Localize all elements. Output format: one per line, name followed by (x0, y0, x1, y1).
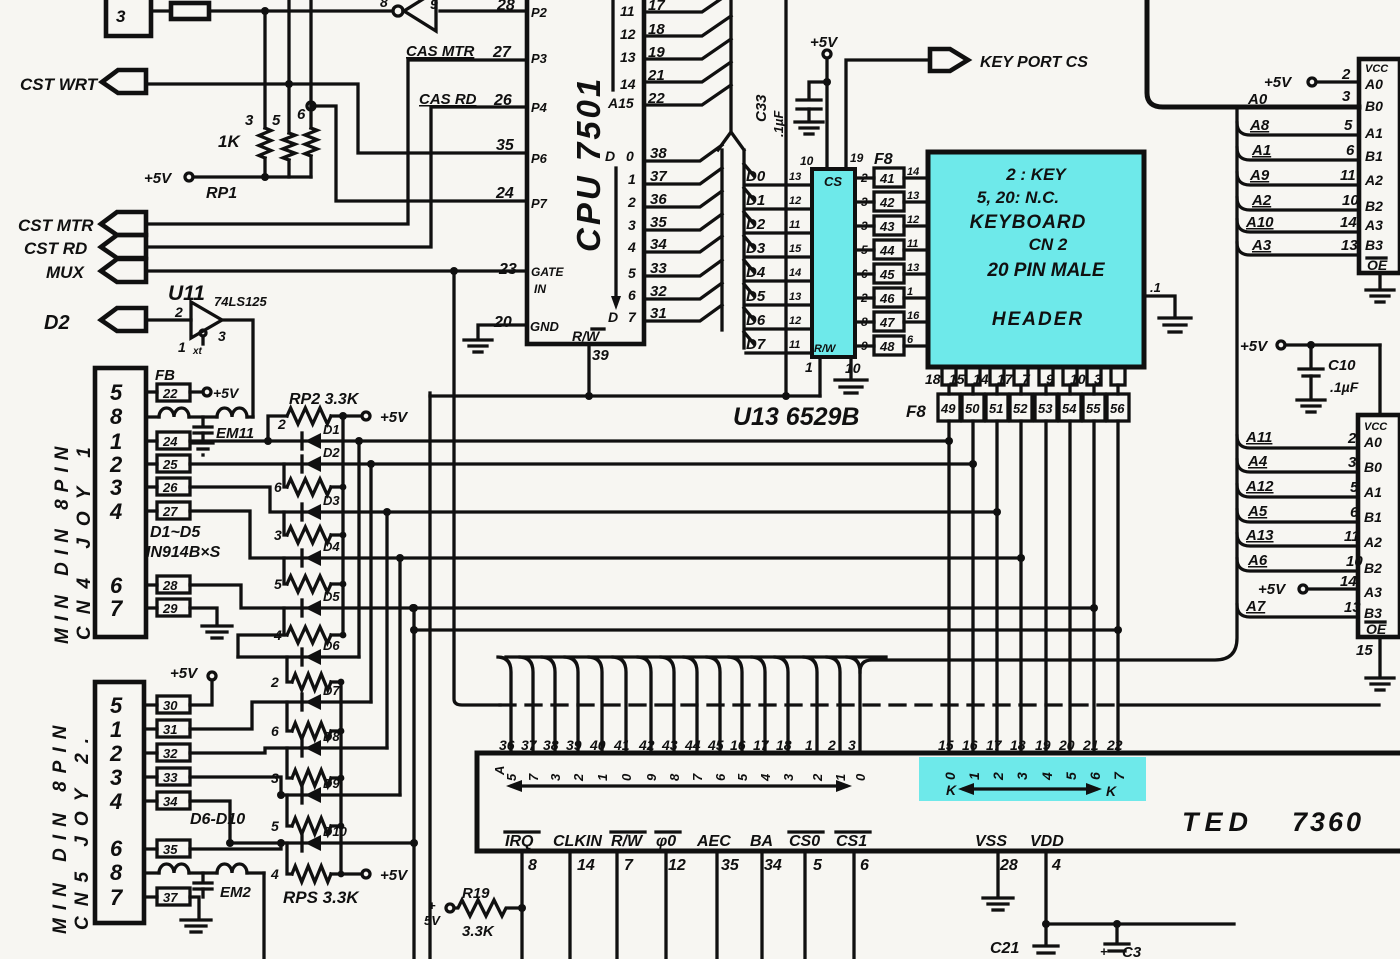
wire D6 row (238, 655, 359, 658)
svg-text:2: 2 (571, 773, 586, 782)
svg-text:14: 14 (789, 267, 801, 279)
svg-text:.1µF: .1µF (771, 110, 786, 137)
svg-text:14: 14 (1340, 573, 1357, 590)
svg-text:53: 53 (1038, 401, 1053, 416)
svg-text:3: 3 (781, 773, 796, 781)
wire leg6 to CPU P7 (311, 106, 527, 201)
wire A1 to conn1 (1237, 142, 1359, 160)
svg-text:3: 3 (548, 773, 563, 781)
wire EM2 out down (262, 873, 265, 959)
svg-text:24: 24 (495, 185, 514, 202)
node cyan highlight K0-K7 strip (919, 757, 1146, 801)
wire A-bus vertical right (860, 107, 1237, 672)
svg-text:2: 2 (270, 674, 279, 690)
svg-text:1: 1 (966, 772, 982, 780)
pin 10 6529 bottom (845, 357, 861, 378)
svg-text:B2: B2 (1364, 560, 1382, 576)
wire D7 row (302, 700, 371, 703)
pin 14 keyboard bottom (973, 367, 1004, 387)
resistor RP5-4 (270, 843, 344, 882)
svg-text:15: 15 (949, 371, 965, 387)
svg-text:P2: P2 (531, 5, 548, 20)
svg-text:16: 16 (962, 737, 978, 753)
svg-text:KEYBOARD: KEYBOARD (970, 212, 1087, 233)
svg-text:32: 32 (163, 746, 178, 761)
wire RP5 common bus (339, 682, 342, 874)
svg-text:8: 8 (380, 0, 388, 10)
power +5V conn2 A3 (1258, 573, 1358, 598)
svg-text:8: 8 (667, 773, 682, 781)
svg-text:B0: B0 (1364, 459, 1382, 475)
svg-text:23: 23 (498, 261, 517, 278)
svg-text:HEADER: HEADER (992, 309, 1084, 330)
wire A pin 19 to bus (644, 39, 731, 59)
label A0 net (1247, 88, 1351, 108)
svg-text:VSS: VSS (975, 833, 1007, 850)
svg-text:34: 34 (163, 794, 178, 809)
svg-text:5: 5 (1350, 479, 1359, 496)
svg-text:14: 14 (907, 166, 919, 178)
wire MUX drop to dashed net (454, 271, 500, 705)
svg-text:D2: D2 (746, 216, 766, 233)
resistor RP2-6 (274, 464, 346, 495)
svg-text:6: 6 (271, 723, 279, 739)
svg-text:17: 17 (753, 737, 770, 753)
ferrite bead FB56 (1107, 385, 1129, 421)
svg-text:3: 3 (848, 737, 856, 753)
ferrite bead FB26 (146, 478, 190, 495)
ferrite bead FB28 (146, 576, 190, 593)
pin CLKIN TED bottom (553, 833, 602, 959)
ferrite bead FB49 (938, 385, 960, 421)
svg-text:A2: A2 (1251, 192, 1272, 209)
svg-text:D3: D3 (746, 240, 766, 257)
wire R/W down left (428, 396, 431, 959)
svg-text:A10: A10 (1245, 214, 1274, 231)
svg-text:11: 11 (907, 238, 918, 250)
svg-text:+: + (1100, 944, 1108, 959)
svg-text:48: 48 (879, 339, 895, 354)
svg-text:1: 1 (110, 717, 122, 742)
wire TED left pin band (506, 655, 886, 658)
connector J? top-left box (106, 0, 151, 36)
node CST WRT flag (20, 70, 146, 94)
svg-text:F8: F8 (874, 151, 893, 168)
svg-text:44: 44 (879, 243, 895, 258)
svg-text:+5V: +5V (1264, 74, 1293, 91)
connector U? latch 2 body (1358, 415, 1400, 637)
wire D7 riser to K1 (369, 464, 372, 702)
svg-text:D7: D7 (746, 336, 766, 353)
wire D pin 32 to bus (644, 283, 722, 299)
svg-text:3: 3 (271, 770, 279, 786)
svg-text:4: 4 (1051, 857, 1061, 874)
svg-text:37: 37 (163, 890, 178, 905)
svg-text:5: 5 (813, 857, 823, 874)
svg-text:15: 15 (789, 243, 802, 255)
svg-text:20: 20 (1058, 737, 1075, 753)
svg-text:A1: A1 (1364, 125, 1383, 141)
pin 17 keyboard bottom (997, 367, 1028, 387)
svg-text:41: 41 (879, 171, 894, 186)
node junction MUX drop (450, 267, 458, 275)
node junction K4 joy2 (409, 604, 417, 612)
wire TED pin 45 (707, 657, 720, 753)
svg-text:42: 42 (879, 195, 895, 210)
svg-text:3: 3 (861, 195, 868, 209)
svg-text:4: 4 (270, 866, 279, 882)
wire TED pin 38 (542, 657, 555, 753)
svg-text:3: 3 (116, 7, 126, 26)
wire thick feed top right (1147, 0, 1359, 107)
wire K4 row (302, 606, 1094, 609)
svg-text:MIN DIN 8PIN: MIN DIN 8PIN (50, 718, 71, 934)
svg-text:74LS125: 74LS125 (214, 294, 268, 309)
svg-text:3.3K: 3.3K (462, 923, 495, 940)
svg-text:CLKIN: CLKIN (553, 833, 602, 850)
wire TED pin 44 (684, 657, 697, 753)
svg-text:19: 19 (1035, 737, 1051, 753)
diode D4 (302, 539, 340, 566)
svg-text:5V: 5V (424, 913, 441, 928)
ferrite bead FB46 (855, 286, 928, 307)
wire CST WRT to CPU P6 (146, 84, 527, 153)
ferrite bead FB43 (855, 214, 928, 235)
wire inverter output to P2 (440, 9, 527, 12)
wire keyboard column K2 to TED pin (995, 421, 998, 753)
svg-text:2: 2 (109, 741, 123, 766)
svg-text:K: K (946, 782, 957, 798)
svg-text:C3: C3 (1122, 944, 1142, 959)
wire TED pin 42 (638, 657, 651, 753)
wire A pin 17 to bus (644, 0, 731, 12)
svg-text:VCC: VCC (1365, 63, 1389, 75)
svg-text:6: 6 (1087, 772, 1103, 780)
wire D pin 34 to bus (644, 236, 722, 252)
svg-text:A11: A11 (1245, 429, 1272, 446)
svg-text:B2: B2 (1365, 198, 1383, 214)
resistor RP5-6 (271, 702, 344, 739)
svg-text:D4: D4 (746, 264, 766, 281)
svg-text:35: 35 (163, 842, 178, 857)
svg-text:42: 42 (638, 737, 655, 753)
resistor RP5-2 (270, 657, 344, 690)
svg-text:MIN DIN 8PIN: MIN DIN 8PIN (52, 440, 73, 644)
ferrite bead FB30 (144, 696, 190, 713)
wire data bus top vertical (729, 0, 732, 130)
power +5V RP5 (341, 867, 409, 884)
wire RP1 leg 6 vertical (309, 0, 312, 128)
svg-text:CN 2: CN 2 (1029, 235, 1068, 254)
node junction K3 joy2 (396, 554, 404, 562)
wire D pin 33 to bus (644, 260, 722, 276)
node junction K1 column (969, 460, 977, 468)
wire A3 to conn1 (1237, 237, 1359, 255)
svg-text:3: 3 (1094, 371, 1102, 387)
node junction K4 column (1090, 604, 1098, 612)
svg-text:1: 1 (178, 339, 186, 355)
svg-text:CST WRT: CST WRT (20, 75, 99, 94)
svg-text:A0: A0 (1364, 76, 1383, 92)
svg-text:1: 1 (805, 737, 813, 753)
svg-text:D1~D5: D1~D5 (150, 524, 201, 541)
svg-text:7: 7 (628, 309, 637, 325)
pin 15 keyboard bottom (949, 367, 980, 387)
IC U? CPU 7501 body (527, 0, 644, 344)
wire VDD rail (1042, 920, 1234, 928)
wire D6 row left riser (238, 635, 284, 657)
pin 7 keyboard bottom (1022, 367, 1053, 387)
svg-text:35: 35 (496, 137, 515, 154)
svg-text:1K: 1K (218, 132, 241, 151)
wire keyboard column K3 to TED pin (1019, 421, 1022, 753)
svg-text:φ0: φ0 (656, 833, 676, 850)
svg-text:12: 12 (907, 214, 919, 226)
svg-text:22: 22 (162, 386, 178, 401)
power +5V C10 (1240, 338, 1380, 355)
svg-text:4: 4 (627, 239, 636, 255)
svg-text:CST MTR: CST MTR (18, 216, 94, 235)
svg-text:44: 44 (684, 737, 701, 753)
svg-text:14: 14 (577, 857, 595, 874)
svg-text:GND: GND (530, 319, 560, 334)
capacitor EM1 mid (194, 417, 212, 441)
svg-text:4: 4 (758, 773, 773, 782)
wire D pin 35 to bus (644, 214, 722, 230)
svg-text:15: 15 (1356, 642, 1373, 659)
svg-text:R/W: R/W (611, 833, 644, 850)
svg-text:A13: A13 (1245, 527, 1274, 544)
pin BA TED bottom (750, 833, 782, 959)
wire K2 row (302, 510, 997, 513)
svg-text:CS1: CS1 (836, 833, 867, 850)
svg-text:D4: D4 (323, 539, 340, 554)
svg-text:43: 43 (879, 219, 895, 234)
svg-text:8: 8 (861, 315, 868, 329)
svg-text:U13 6529B: U13 6529B (733, 403, 859, 431)
wire D column arrow (611, 168, 621, 310)
svg-text:C10: C10 (1328, 357, 1356, 374)
ferrite bead FB31 (144, 720, 190, 737)
wire pin7 CN5 to ground (190, 897, 199, 918)
node arrow group1 (492, 766, 852, 792)
svg-text:A0: A0 (1363, 434, 1382, 450)
svg-text:U11: U11 (168, 282, 205, 305)
svg-text:CS0: CS0 (789, 833, 820, 850)
svg-text:3: 3 (1348, 454, 1357, 471)
diode D1 (302, 422, 340, 449)
svg-text:10: 10 (1070, 371, 1086, 387)
svg-text:A6: A6 (1247, 552, 1268, 569)
svg-text:4: 4 (1039, 772, 1055, 781)
svg-text:30: 30 (163, 698, 178, 713)
svg-text:52: 52 (1013, 401, 1028, 416)
wire long vertical D7 feed (784, 0, 787, 396)
IC TED 7360 body (477, 753, 1400, 851)
wire pin6 to K4 row (190, 585, 302, 608)
svg-text:VDD: VDD (1030, 833, 1064, 850)
wire TED pin 36 (498, 657, 511, 753)
svg-text:54: 54 (1062, 401, 1077, 416)
svg-text:K: K (1106, 783, 1117, 799)
ground CN4 pin7 (202, 626, 232, 638)
svg-text:18: 18 (1010, 737, 1026, 753)
svg-text:B0: B0 (1365, 98, 1383, 114)
pin label OE conn2 (1366, 621, 1387, 637)
svg-text:36: 36 (499, 737, 515, 753)
svg-text:11: 11 (789, 219, 800, 231)
node D1 net label (744, 188, 812, 209)
svg-text:+5V: +5V (380, 409, 409, 426)
resistor R? top-left (171, 3, 209, 19)
svg-text:39: 39 (566, 737, 582, 753)
ground C10 (1297, 400, 1325, 412)
ferrite bead FB50 (962, 385, 984, 421)
svg-text:43: 43 (661, 737, 678, 753)
svg-text:CAS MTR: CAS MTR (406, 43, 474, 60)
svg-text:17: 17 (997, 371, 1014, 387)
ferrite bead FB25 (146, 455, 190, 472)
svg-text:4: 4 (109, 789, 122, 814)
svg-text:+5V: +5V (144, 170, 173, 187)
wire A pin 22 to bus (644, 85, 731, 105)
svg-text:21: 21 (1082, 737, 1099, 753)
svg-text:6: 6 (274, 479, 282, 495)
wire A12 to conn2 (1237, 478, 1359, 497)
svg-text:35: 35 (721, 857, 740, 874)
svg-text:7: 7 (1022, 371, 1031, 387)
wire pin1 CN5 to D7 row (190, 702, 302, 729)
wire pin2 CN5 to D8 row (190, 748, 302, 753)
pin 18 keyboard bottom (925, 367, 956, 387)
wire A8 to conn1 (1237, 117, 1359, 135)
svg-text:IRQ: IRQ (505, 833, 534, 850)
svg-text:A3: A3 (1363, 584, 1382, 600)
wire D10 riser to K4/K5 (410, 604, 418, 959)
svg-text:14: 14 (973, 371, 989, 387)
svg-text:47: 47 (879, 315, 895, 330)
inductor EM2 filter pin8 (144, 864, 264, 901)
svg-text:.1µF: .1µF (1330, 379, 1359, 395)
svg-text:5: 5 (271, 818, 279, 834)
svg-text:7360: 7360 (1292, 807, 1364, 837)
svg-text:37: 37 (521, 737, 538, 753)
svg-text:CN4 JOY 1: CN4 JOY 1 (74, 435, 95, 640)
wire +5V to conn2 VCC (1378, 345, 1381, 415)
pin 1 keyboard ground (1144, 280, 1175, 316)
pin label OE conn1 (1367, 257, 1388, 273)
svg-text:5: 5 (272, 112, 281, 129)
svg-text:CAS RD: CAS RD (419, 91, 477, 108)
wire D pin 31 to bus (644, 305, 722, 321)
wire CST RD to CPU P4 (CAS RD) (146, 107, 527, 247)
svg-text:2: 2 (827, 737, 836, 753)
svg-text:13: 13 (789, 291, 801, 303)
capacitor C3 (1100, 924, 1142, 959)
wire A11 to conn2 (1237, 429, 1358, 448)
svg-text:3: 3 (1014, 772, 1030, 780)
svg-text:51: 51 (989, 401, 1003, 416)
ferrite bead FB34 (144, 792, 190, 809)
svg-text:28: 28 (999, 857, 1018, 874)
node junction K0 column (945, 437, 953, 445)
ferrite bead FB35 (144, 840, 190, 857)
wire KEY PORT CS from 6529 pin 19 (846, 60, 930, 169)
pin IRQ TED bottom (505, 832, 539, 959)
wire TED pin 18 (775, 657, 788, 753)
svg-text:13: 13 (789, 171, 801, 183)
svg-text:CN5 JOY 2.: CN5 JOY 2. (72, 728, 93, 930)
svg-text:+5V: +5V (213, 385, 240, 401)
wire resistor to inverter input (209, 9, 392, 12)
svg-text:6: 6 (907, 334, 914, 346)
pin VDD TED (1030, 833, 1064, 924)
ground VSS (983, 898, 1013, 910)
svg-text:+5V: +5V (1258, 581, 1287, 598)
ferrite bead FB41 (855, 166, 928, 187)
ferrite bead FB48 (855, 334, 928, 355)
svg-text:5: 5 (735, 773, 750, 781)
wire A5 to conn2 (1237, 503, 1359, 522)
svg-text:A9: A9 (1249, 167, 1270, 184)
svg-text:33: 33 (163, 770, 178, 785)
svg-text:6: 6 (861, 267, 868, 281)
connector CN4 JOY 1 body (95, 368, 146, 637)
svg-text:56: 56 (1110, 401, 1125, 416)
svg-text:46: 46 (879, 291, 895, 306)
wire A2 to conn1 (1237, 192, 1359, 210)
resistor RP2-2 (264, 408, 360, 445)
svg-text:2: 2 (810, 773, 825, 782)
wire pin3 to K2 row (190, 487, 302, 512)
svg-text:5: 5 (274, 576, 282, 592)
wire keyboard column K6 to TED pin (1092, 421, 1095, 753)
svg-text:xt: xt (192, 346, 203, 357)
IC U13 6529B body (812, 169, 855, 357)
pin 9 keyboard bottom (1046, 367, 1077, 387)
svg-text:3: 3 (1342, 88, 1351, 105)
wire keyboard column K7 to TED pin (1116, 421, 1119, 753)
power +5V pin5 CN4 (190, 385, 240, 401)
svg-text:9: 9 (430, 0, 438, 12)
svg-text:D2: D2 (323, 445, 340, 460)
svg-text:A1: A1 (1363, 484, 1382, 500)
svg-text:RPS 3.3K: RPS 3.3K (283, 888, 360, 907)
svg-text:0: 0 (626, 148, 634, 164)
power +5V RP1 (144, 170, 311, 187)
diode D2 (302, 445, 340, 472)
svg-text:P3: P3 (531, 51, 548, 66)
node MUX flag (46, 259, 146, 282)
svg-text:55: 55 (1086, 401, 1101, 416)
svg-text:22: 22 (1106, 737, 1123, 753)
wire TED pin 39 (565, 657, 578, 753)
connector U? latch 1 body (1359, 59, 1400, 273)
svg-text:20: 20 (493, 314, 512, 331)
svg-text:A8: A8 (1249, 117, 1270, 134)
resistor RP1-3 1K (259, 128, 271, 158)
node junction CST WRT / leg5 (285, 80, 293, 88)
svg-text:7: 7 (110, 596, 124, 621)
wire R/W net horizontal (430, 393, 820, 396)
svg-text:6: 6 (110, 573, 123, 598)
svg-text:2 : KEY: 2 : KEY (1005, 165, 1067, 184)
wire keyboard column K4 to TED pin (1044, 421, 1047, 753)
svg-text:CS: CS (824, 174, 842, 189)
svg-text:7: 7 (110, 885, 124, 910)
wire TED pin 2 (827, 657, 840, 753)
op-amp U11 74LS125 buffer (168, 282, 268, 357)
